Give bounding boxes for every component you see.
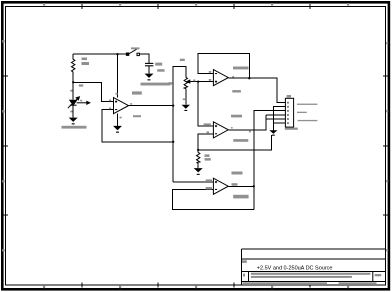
wire op-amp4 + input: [173, 181, 213, 183]
op-amp U3 labels: [204, 115, 251, 142]
capacitor C1: [145, 63, 153, 65]
svg-text:+2.5V and 0-250uA DC Source: +2.5V and 0-250uA DC Source: [257, 266, 333, 272]
wire op-amp3 inverting input: [198, 134, 213, 150]
shunt reference D1: [68, 97, 90, 108]
op-amp U3: [213, 122, 228, 138]
wire op-amp2 output to pin1: [228, 78, 285, 102]
wire pin4 stub: [266, 114, 286, 116]
op-amp U1 labels: [109, 91, 142, 118]
ground (potentiometer): [182, 105, 190, 111]
ground (connector): [269, 130, 277, 135]
wire op-amp4 feedback loop: [172, 189, 254, 209]
wire pin3 riser: [254, 111, 286, 210]
ground (R5): [194, 168, 203, 175]
wire wiper branch to op-amp3 + input: [198, 82, 213, 126]
wire pot wiper to op-amp2: [191, 81, 213, 83]
op-amp U1: [114, 98, 129, 114]
op-amp U4 labels: [206, 172, 249, 199]
wire op-amp1 V- to ground: [117, 114, 119, 126]
wire op-amp4 output: [228, 185, 254, 187]
wire diode to ground: [72, 106, 74, 118]
shunt reference pin numbers: [70, 90, 82, 113]
op-amp U2: [213, 70, 228, 86]
resistor R1 labels: [82, 58, 90, 66]
potentiometer R4: [184, 77, 191, 88]
wire feedback vertical to pot: [173, 66, 186, 181]
wire op-amp3 output to pin stub: [228, 115, 265, 130]
title block small grey text: [242, 260, 381, 285]
op-amp U4: [213, 178, 228, 194]
connector J1: [285, 98, 293, 127]
zone ticks left: [3, 76, 8, 215]
resistor R5: [197, 152, 200, 163]
ground (capacitor): [145, 74, 154, 81]
wire op-amp1 inverting input feedback: [102, 110, 173, 142]
connector pins: [287, 102, 289, 124]
ground (reference): [69, 118, 78, 125]
title block: [242, 249, 386, 285]
switch label: [131, 47, 140, 49]
wire sense net to connector area: [198, 135, 271, 150]
capacitor labels: [155, 63, 164, 72]
wire pin2 to ground: [273, 107, 285, 131]
net label 2.5V: [79, 84, 83, 86]
wire top rail: [73, 53, 128, 55]
net name lines right of connector: [297, 104, 317, 122]
wire op-amp1 V+: [117, 54, 119, 97]
zone ticks top: [82, 4, 310, 9]
wire resistor to diode: [72, 72, 74, 99]
ground (op-amp U1): [113, 126, 122, 133]
wire op-amp1 output: [129, 105, 174, 107]
wire rail corner to resistor: [72, 54, 74, 59]
wire pot bottom to ground: [185, 89, 187, 105]
junction dots: [72, 53, 255, 187]
resistor R1: [72, 59, 75, 72]
potentiometer labels: [168, 59, 195, 100]
wire switch to cap: [139, 54, 149, 63]
zone ticks bottom: [82, 283, 310, 288]
wire resistor R5 top: [197, 150, 199, 153]
annotation bar: [141, 83, 171, 86]
wire resistor R5 to ground: [197, 163, 199, 168]
wire op-amp2 feedback loop: [198, 54, 249, 79]
zone ticks right: [383, 76, 388, 215]
wire cap to ground: [148, 66, 150, 73]
reference part label: [62, 126, 87, 129]
wire pin6 stub: [273, 122, 285, 124]
op-amp U2 labels: [209, 67, 249, 93]
connector labels: [285, 95, 298, 130]
wire pin5 stub: [266, 118, 286, 120]
wire ref node to op-amp + input: [73, 82, 113, 101]
resistor R5 labels: [205, 154, 211, 160]
switch SW1: [126, 49, 139, 56]
